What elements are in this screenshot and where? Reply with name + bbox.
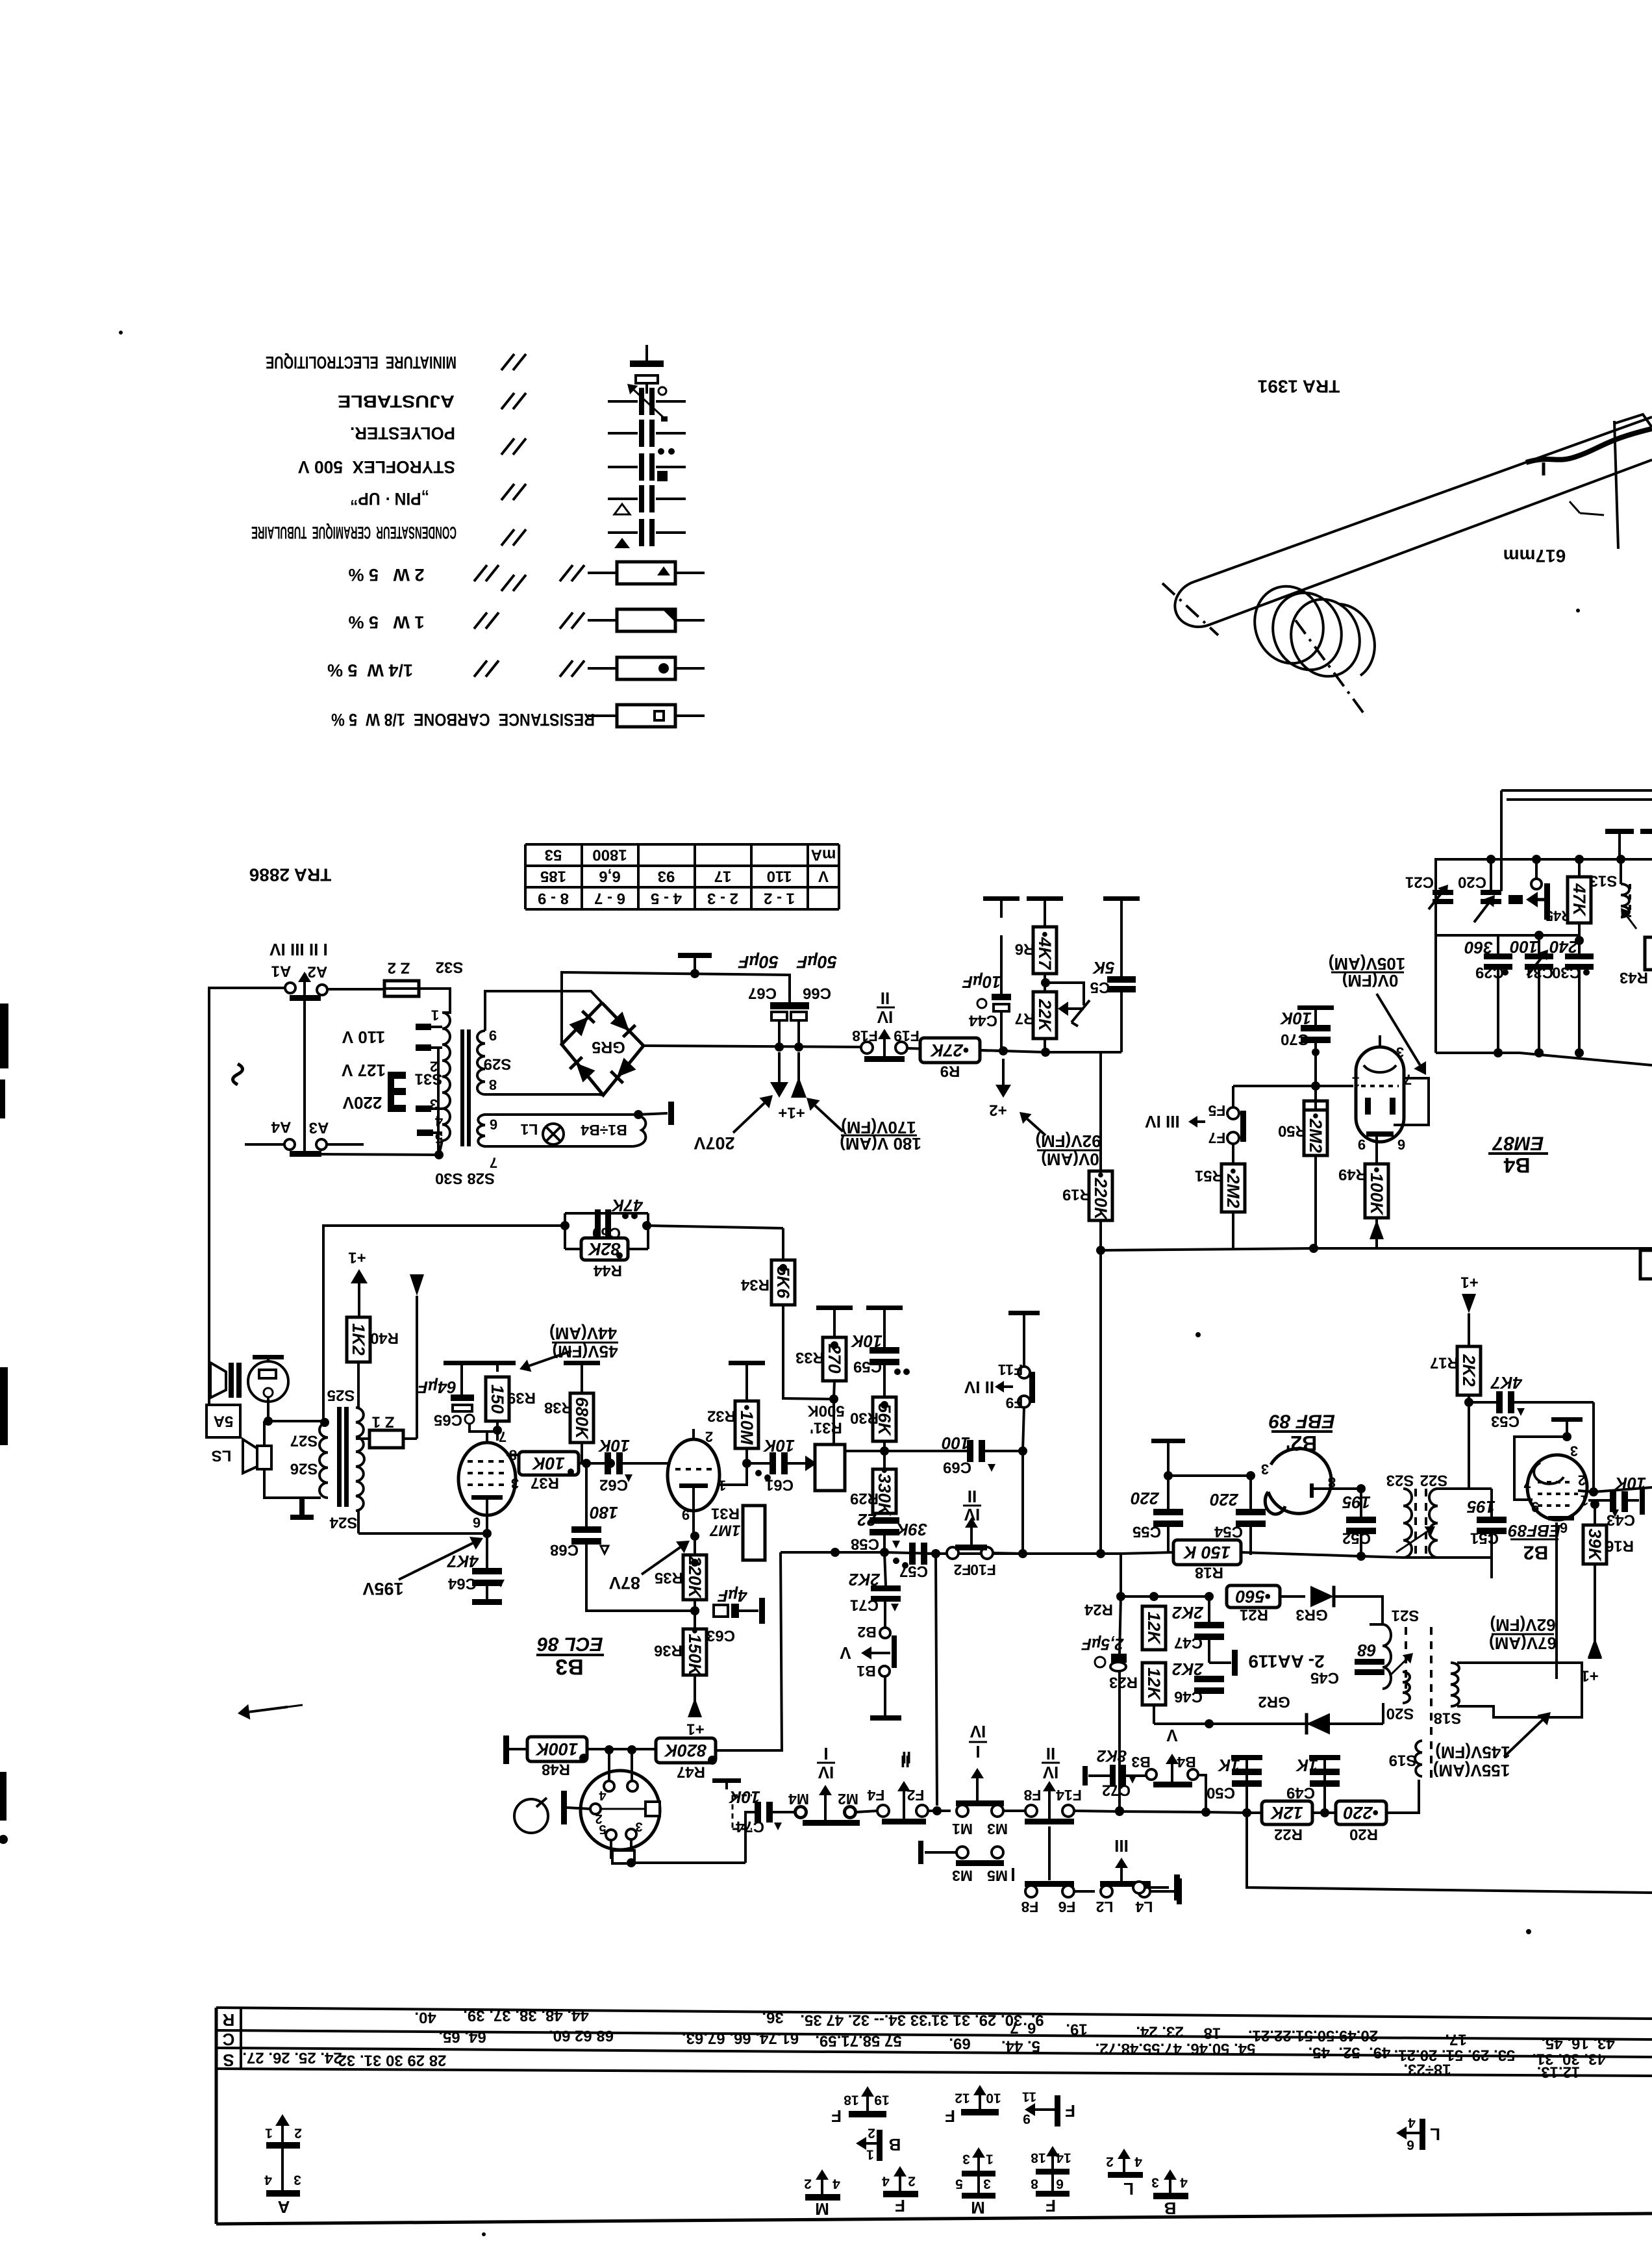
arrow +1+ left bbox=[770, 1052, 788, 1098]
resistor R16 bbox=[0, 0, 1, 1]
label B2 EBF89 text bbox=[1508, 1521, 1560, 1563]
svg-text:S24: S24 bbox=[329, 1514, 357, 1532]
label C67 C66 bbox=[748, 985, 831, 1002]
resistor R48 bbox=[509, 1737, 588, 1778]
svg-text:L: L bbox=[1123, 2179, 1134, 2199]
mixer arrow bbox=[1508, 892, 1544, 907]
legend // mark row2 bbox=[501, 393, 526, 409]
terminal A1 bbox=[238, 983, 295, 993]
svg-text:•220: •220 bbox=[1344, 1803, 1379, 1823]
label II IV bbox=[963, 1487, 981, 1524]
terminal bar DIN bbox=[561, 1791, 590, 1824]
wire bbox=[582, 1443, 610, 1463]
svg-text:+1+: +1+ bbox=[778, 1104, 805, 1122]
svg-text:EBF 89: EBF 89 bbox=[1269, 1411, 1335, 1432]
svg-text:3: 3 bbox=[294, 2173, 301, 2188]
label B3 ECL86 bbox=[536, 1634, 604, 1680]
wire bbox=[883, 1535, 886, 1552]
svg-text:I: I bbox=[823, 1744, 828, 1763]
resistor R9 bbox=[920, 1038, 980, 1080]
svg-text:F4: F4 bbox=[867, 1787, 884, 1804]
svg-text:8 - 9: 8 - 9 bbox=[538, 890, 569, 907]
svg-text:12K: 12K bbox=[1144, 1611, 1164, 1645]
svg-text:C71: C71 bbox=[850, 1596, 879, 1614]
svg-text:5K: 5K bbox=[1092, 958, 1114, 978]
wire bbox=[1232, 1086, 1234, 1107]
svg-text:•2M2: •2M2 bbox=[1223, 1168, 1243, 1208]
wire bbox=[1370, 1624, 1383, 1689]
resistor R20 bbox=[1336, 1801, 1386, 1843]
transformer core bbox=[460, 1029, 471, 1146]
lamp L1 bbox=[543, 1124, 564, 1144]
wire bbox=[856, 1806, 951, 1815]
legend resistor 1/4W symbol bbox=[588, 657, 705, 679]
svg-text:2: 2 bbox=[908, 2174, 916, 2189]
svg-text:R39: R39 bbox=[507, 1389, 536, 1407]
capacitor C46 bbox=[1153, 1650, 1155, 1669]
svg-text:6: 6 bbox=[1397, 1137, 1405, 1153]
wire IF rail bbox=[1121, 1552, 1492, 1596]
legend // mark row3 bbox=[501, 438, 526, 455]
winding S18 bbox=[1434, 1663, 1462, 1727]
resistor R29 bbox=[850, 1467, 896, 1517]
wire bbox=[985, 1446, 1027, 1456]
wire bbox=[1000, 935, 1003, 1051]
arrow up mains bbox=[298, 972, 311, 1002]
wire S18 top loop bbox=[0, 0, 1, 1]
svg-text:11: 11 bbox=[1022, 2089, 1037, 2104]
contact M3 M5 bbox=[952, 1847, 1008, 1884]
svg-text:C57: C57 bbox=[899, 1563, 928, 1580]
label R43 bbox=[1620, 969, 1648, 987]
svg-text:50µF: 50µF bbox=[795, 952, 837, 972]
connector A bbox=[264, 2114, 302, 2217]
svg-text:MINIATURE ELECTROLITIQUE: MINIATURE ELECTROLITIQUE bbox=[266, 353, 457, 372]
svg-text:1: 1 bbox=[431, 1007, 439, 1024]
svg-text:R40: R40 bbox=[370, 1330, 399, 1347]
svg-text:1: 1 bbox=[1581, 1493, 1588, 1509]
svg-text:R50: R50 bbox=[1278, 1122, 1307, 1140]
label II IV with arrow bbox=[964, 1378, 1013, 1397]
svg-text:10µF: 10µF bbox=[962, 972, 1001, 992]
contact F18 F19 bbox=[852, 1028, 920, 1062]
svg-text:C69: C69 bbox=[943, 1459, 971, 1476]
svg-text:207V: 207V bbox=[694, 1133, 734, 1153]
potentiometer 5K wiper bbox=[1049, 983, 1090, 1026]
chassis ground bbox=[1551, 1417, 1583, 1441]
label C50 bbox=[1207, 1784, 1235, 1802]
svg-text:M4: M4 bbox=[788, 1791, 809, 1808]
svg-text:F14: F14 bbox=[1056, 1787, 1082, 1804]
winding S25 S24 bbox=[356, 1407, 364, 1511]
arrow +1 R47 bbox=[0, 0, 1, 1]
svg-text:M: M bbox=[815, 2199, 829, 2219]
svg-text:S: S bbox=[223, 2050, 234, 2070]
IF transformer dashes bbox=[1396, 1489, 1435, 1558]
svg-text:IV: IV bbox=[970, 1722, 986, 1741]
tube pin numbers bbox=[1352, 1044, 1412, 1153]
svg-text:C53: C53 bbox=[1491, 1413, 1520, 1430]
label 110V 127V 220V bbox=[341, 1028, 386, 1113]
svg-text:7: 7 bbox=[490, 1155, 497, 1171]
svg-text:EBF89: EBF89 bbox=[1508, 1521, 1560, 1541]
label 10K bbox=[1279, 1009, 1312, 1028]
svg-text:R34: R34 bbox=[740, 1276, 770, 1294]
svg-text:R: R bbox=[222, 2010, 234, 2030]
label II IV F8F14 bbox=[1042, 1744, 1060, 1782]
svg-text:5A: 5A bbox=[214, 1413, 234, 1430]
connection table frame bbox=[216, 2008, 1652, 2224]
label S23 S22 bbox=[1386, 1472, 1448, 1489]
legend pin-up capacitor symbol bbox=[608, 485, 686, 514]
wire bbox=[416, 1325, 418, 1439]
label 2K2 C47 bbox=[1172, 1603, 1224, 1652]
potentiometer R31p 500K bbox=[807, 1402, 845, 1491]
svg-text:10K: 10K bbox=[531, 1454, 565, 1473]
coil S13 bbox=[1621, 861, 1636, 929]
svg-text:F7: F7 bbox=[1208, 1129, 1226, 1146]
legend adjustable capacitor symbol bbox=[608, 384, 686, 422]
wire bbox=[670, 1448, 795, 1468]
connector F 2-4 bbox=[883, 2166, 918, 2197]
label AJUSTABLE bbox=[338, 392, 455, 411]
chassis ground bbox=[712, 1778, 741, 1789]
svg-text:C21: C21 bbox=[1405, 874, 1434, 891]
terminal labels A1 A2' bbox=[271, 963, 328, 981]
chassis ground bbox=[1027, 896, 1063, 913]
svg-text:S13: S13 bbox=[1590, 872, 1618, 890]
chassis ground bbox=[564, 1361, 600, 1393]
wire bbox=[783, 1228, 834, 1399]
arrow R16 bottom bbox=[1588, 1564, 1602, 1658]
label S27 bbox=[290, 1432, 318, 1450]
svg-text:S18: S18 bbox=[1434, 1710, 1462, 1727]
svg-text:18: 18 bbox=[1031, 2151, 1046, 2165]
svg-text:IV: IV bbox=[964, 1505, 980, 1524]
wire bbox=[1555, 1522, 1558, 1629]
svg-text:195V: 195V bbox=[362, 1579, 403, 1598]
small pointer arrow bbox=[238, 1704, 303, 1720]
svg-text:150 K: 150 K bbox=[1182, 1543, 1231, 1562]
svg-text:C30: C30 bbox=[1552, 964, 1581, 981]
table row letters R C S bbox=[222, 2010, 234, 2070]
resistor R43 partial bbox=[1645, 937, 1652, 970]
svg-text:12: 12 bbox=[955, 2091, 970, 2106]
svg-text:0V(AM): 0V(AM) bbox=[1041, 1150, 1099, 1169]
svg-text:7: 7 bbox=[1523, 1475, 1531, 1491]
svg-text:C65: C65 bbox=[434, 1411, 462, 1429]
svg-text:C72: C72 bbox=[1102, 1782, 1131, 1799]
capacitor C63 bbox=[707, 1598, 765, 1645]
svg-text:2: 2 bbox=[804, 2177, 812, 2191]
svg-text:„PIN · UP”: „PIN · UP” bbox=[350, 489, 429, 509]
svg-text:R29: R29 bbox=[850, 1490, 879, 1508]
svg-text:R21: R21 bbox=[1240, 1606, 1268, 1624]
svg-text:6: 6 bbox=[490, 1117, 497, 1133]
svg-text:B4: B4 bbox=[1503, 1154, 1530, 1177]
svg-text:40.: 40. bbox=[414, 2009, 436, 2026]
svg-text:B3: B3 bbox=[1131, 1754, 1150, 1771]
tube pin numbers bbox=[1523, 1443, 1588, 1536]
svg-text:62V(FM): 62V(FM) bbox=[1490, 1615, 1555, 1635]
wire bbox=[1074, 1890, 1095, 1893]
wire bbox=[753, 1491, 755, 1611]
label 1 W 5% bbox=[348, 612, 424, 632]
legend polyester capacitor symbol bbox=[608, 420, 686, 455]
chassis ground bbox=[479, 1361, 516, 1372]
label 22 bbox=[857, 1510, 877, 1530]
wire bbox=[1044, 973, 1046, 992]
wire bbox=[781, 1552, 782, 1752]
arrow +2 bbox=[989, 1059, 1011, 1119]
svg-text:43. 16. 45.: 43. 16. 45. bbox=[1541, 2035, 1614, 2052]
wire pin2 bbox=[1578, 1487, 1652, 1492]
wire bbox=[775, 1020, 803, 1052]
svg-text:F: F bbox=[831, 2106, 842, 2126]
svg-text:195: 195 bbox=[1467, 1497, 1496, 1517]
capacitor C64 bbox=[447, 1533, 505, 1605]
label +1+ bbox=[778, 1104, 805, 1122]
svg-text:19: 19 bbox=[874, 2093, 889, 2108]
svg-text:+1: +1 bbox=[348, 1249, 366, 1267]
label L1 bbox=[520, 1121, 538, 1138]
svg-text:1: 1 bbox=[1352, 1074, 1360, 1091]
svg-text:C66: C66 bbox=[803, 985, 831, 1002]
speaker LS bbox=[212, 1439, 271, 1473]
svg-text:S21: S21 bbox=[1392, 1607, 1420, 1624]
svg-text:R43: R43 bbox=[1620, 969, 1648, 987]
svg-text:•4K7: •4K7 bbox=[1035, 931, 1055, 971]
label S29 bbox=[484, 1055, 512, 1073]
svg-text:0V(FM): 0V(FM) bbox=[1342, 971, 1399, 991]
svg-text:R38: R38 bbox=[544, 1399, 573, 1417]
svg-text:F8: F8 bbox=[1023, 1787, 1041, 1804]
legend // mark row6 bbox=[501, 575, 526, 591]
svg-text:6: 6 bbox=[473, 1515, 481, 1531]
svg-text:•2M2: •2M2 bbox=[1306, 1113, 1325, 1153]
resistor R19 bbox=[1062, 1162, 1112, 1250]
svg-text:45V(FM): 45V(FM) bbox=[552, 1342, 618, 1361]
capacitor C50 bbox=[1231, 1755, 1262, 1813]
wire bbox=[1575, 861, 1584, 945]
wire bbox=[1382, 1703, 1384, 1724]
wire bbox=[927, 1552, 950, 1555]
resistor R17 body bbox=[1430, 1346, 1481, 1407]
svg-text:II IV: II IV bbox=[964, 1378, 994, 1397]
svg-text:C44: C44 bbox=[968, 1012, 997, 1029]
svg-text:C5: C5 bbox=[1090, 979, 1110, 996]
resistor R23b 12K bbox=[1142, 1663, 1166, 1705]
diode GR3 bbox=[1295, 1586, 1334, 1624]
wire grid return bbox=[0, 0, 1, 1]
wire bbox=[496, 1421, 499, 1441]
chassis ground bbox=[983, 896, 1020, 918]
svg-text:R51: R51 bbox=[1195, 1167, 1223, 1185]
resistor R45 bar bbox=[1544, 883, 1571, 924]
wire bbox=[883, 1365, 886, 1397]
capacitor C51 195 bbox=[1467, 1497, 1507, 1558]
wire bbox=[716, 1749, 782, 1752]
svg-text:V: V bbox=[840, 1643, 851, 1663]
wire bbox=[1168, 1471, 1255, 1480]
label II IV bbox=[901, 1752, 910, 1771]
capacitor C31 trimmer 100 bbox=[1510, 931, 1553, 1053]
wire pot top bbox=[829, 1432, 831, 1445]
svg-text:1/4 W 5 %: 1/4 W 5 % bbox=[327, 661, 413, 680]
svg-text:M3: M3 bbox=[952, 1867, 973, 1884]
wire grid line bbox=[1233, 1085, 1353, 1087]
label 64uF bbox=[417, 1378, 457, 1397]
capacitor C67 C66 plates bbox=[770, 1002, 809, 1020]
svg-text:39K: 39K bbox=[1585, 1528, 1605, 1562]
junction bbox=[690, 1606, 699, 1615]
svg-text:C55: C55 bbox=[1133, 1523, 1161, 1541]
connector L 4-2 bbox=[1106, 2149, 1143, 2199]
svg-text:1: 1 bbox=[866, 2147, 874, 2162]
svg-text:2,5µF: 2,5µF bbox=[1081, 1635, 1124, 1653]
svg-text:2K2: 2K2 bbox=[1172, 1659, 1204, 1679]
svg-text:12.13.: 12.13. bbox=[1537, 2063, 1581, 2081]
svg-text:3: 3 bbox=[1261, 1461, 1269, 1478]
svg-text:3: 3 bbox=[1151, 2175, 1159, 2190]
resistor R37 bbox=[519, 1452, 579, 1492]
label 105V(AM) 0V(FM) with arrow bbox=[1329, 954, 1426, 1075]
antenna rod axis dash-dot bbox=[1162, 583, 1218, 635]
svg-text:6,6: 6,6 bbox=[599, 868, 620, 885]
label 39K bbox=[895, 1520, 927, 1539]
svg-text:44. 48. 38. 37. 39.: 44. 48. 38. 37. 39. bbox=[463, 2007, 589, 2025]
svg-text:B2: B2 bbox=[1523, 1542, 1548, 1563]
label TRA 2886 bbox=[249, 865, 332, 885]
svg-text:C51: C51 bbox=[1470, 1530, 1499, 1547]
DIN pin numbers bbox=[595, 1788, 642, 1836]
svg-text:18: 18 bbox=[1204, 2025, 1221, 2042]
wire bbox=[1150, 1878, 1182, 1904]
wire bbox=[507, 1454, 526, 1456]
svg-text:68 62 60.: 68 62 60. bbox=[549, 2027, 614, 2045]
selector E connector bbox=[388, 1072, 406, 1112]
svg-text:4: 4 bbox=[882, 2174, 890, 2189]
svg-text:54. 50.46. 47.55.48.72.: 54. 50.46. 47.55.48.72. bbox=[1095, 2040, 1256, 2058]
table row R numbers bbox=[414, 2007, 1614, 2052]
svg-text:220: 220 bbox=[1131, 1489, 1160, 1508]
S18 couples to B2 loop bbox=[0, 0, 1, 1]
capacitor C65 bbox=[434, 1394, 474, 1429]
terminal bar top bbox=[290, 995, 321, 1001]
chassis ground bar bbox=[1083, 1766, 1088, 1785]
svg-text:C29: C29 bbox=[1475, 964, 1504, 981]
svg-text:+1: +1 bbox=[1581, 1667, 1598, 1685]
svg-text:57 58.71.59.: 57 58.71.59. bbox=[815, 2032, 901, 2050]
capacitor C68 bbox=[550, 1463, 608, 1559]
label +1 right bbox=[1581, 1667, 1598, 1685]
connector B 1-2 bbox=[856, 2126, 901, 2162]
resistor R18 150K bbox=[1173, 1540, 1241, 1582]
wire triode plate bbox=[718, 1463, 747, 1485]
secondary pin numbers bbox=[489, 1028, 497, 1093]
label CONDENSATEUR CERAMIQUE TUBULAIRE bbox=[251, 523, 457, 542]
label 10K bbox=[762, 1436, 795, 1456]
svg-text:3: 3 bbox=[430, 1096, 438, 1113]
capacitor C59 bbox=[853, 1315, 910, 1376]
label 617mm bbox=[1503, 546, 1566, 566]
svg-text:C49: C49 bbox=[1286, 1784, 1315, 1802]
svg-text:820K: 820K bbox=[663, 1741, 707, 1760]
legend resistor 2W symbol bbox=[588, 562, 705, 584]
svg-text:C63: C63 bbox=[707, 1627, 735, 1645]
svg-text:10K: 10K bbox=[762, 1436, 795, 1456]
wire bbox=[1469, 1402, 1598, 1496]
legend // mark row5 bbox=[501, 529, 526, 546]
svg-text:B1÷B4: B1÷B4 bbox=[581, 1122, 627, 1139]
wire bbox=[980, 1048, 1050, 1057]
capacitor C57 bbox=[893, 1543, 928, 1580]
label MINIATURE ELECTROLITIQUE bbox=[266, 353, 457, 372]
svg-text:680K: 680K bbox=[572, 1397, 592, 1441]
chassis ground bbox=[1151, 1439, 1185, 1452]
wire bbox=[1312, 1808, 1339, 1817]
svg-text:R47: R47 bbox=[677, 1763, 705, 1781]
capacitor C48 2.5uF bbox=[1081, 1635, 1127, 1671]
resistor R32 bbox=[707, 1401, 758, 1448]
svg-text:150: 150 bbox=[488, 1384, 507, 1413]
contact F8 F14 bbox=[1023, 1781, 1081, 1824]
wire bbox=[623, 1462, 670, 1465]
svg-text:+1: +1 bbox=[686, 1721, 704, 1738]
svg-text:S23: S23 bbox=[1386, 1472, 1414, 1489]
tube B3 ECL86 pentode bbox=[458, 1432, 516, 1515]
tube grid box bbox=[1514, 1437, 1584, 1500]
label 207V with arrow bbox=[694, 1095, 773, 1153]
svg-text:C52: C52 bbox=[1342, 1530, 1371, 1547]
wire bbox=[1314, 1484, 1366, 1493]
svg-text:14: 14 bbox=[1056, 2151, 1071, 2165]
resistor R49 body bbox=[1338, 1137, 1388, 1218]
wire long vertical to F2 bbox=[931, 1549, 940, 1806]
svg-text:S20: S20 bbox=[1386, 1705, 1414, 1722]
wire bbox=[648, 1226, 783, 1228]
svg-text:64. 65.: 64. 65. bbox=[438, 2028, 486, 2046]
capacitor C20 trimmer bbox=[1458, 860, 1501, 922]
svg-text:TRA 1391: TRA 1391 bbox=[1258, 377, 1340, 397]
label V with arrow bbox=[840, 1643, 890, 1663]
resistor R51 bbox=[1232, 1144, 1234, 1164]
svg-text:C59: C59 bbox=[853, 1358, 882, 1376]
wire mains to fuse 5A bbox=[209, 988, 238, 1404]
connector L 4-6 right bbox=[1396, 2115, 1440, 2152]
svg-text:C45: C45 bbox=[1310, 1669, 1339, 1687]
terminal A4 bbox=[245, 1139, 295, 1150]
resistor R50 value bbox=[1304, 1110, 1327, 1155]
svg-text:R30: R30 bbox=[850, 1409, 879, 1427]
svg-text:A4: A4 bbox=[271, 1118, 291, 1136]
svg-text:9: 9 bbox=[1023, 2112, 1031, 2126]
label S24 bbox=[329, 1514, 357, 1532]
terminal bar bottom bbox=[290, 1151, 321, 1157]
svg-text:C74: C74 bbox=[735, 1818, 764, 1836]
capacitor C49 bbox=[1286, 1755, 1340, 1813]
svg-text:1800: 1800 bbox=[592, 846, 627, 864]
wire bbox=[1490, 935, 1491, 936]
svg-text:S28 S30: S28 S30 bbox=[435, 1170, 495, 1187]
mains source squiggle bbox=[233, 1064, 243, 1085]
svg-text:B2: B2 bbox=[857, 1624, 876, 1641]
svg-text:100K: 100K bbox=[534, 1739, 578, 1759]
svg-text:R18: R18 bbox=[1195, 1564, 1223, 1582]
contact M1 M3 bbox=[952, 1768, 1008, 1837]
svg-text:6: 6 bbox=[1056, 2177, 1064, 2191]
svg-text:S19: S19 bbox=[1389, 1752, 1417, 1769]
